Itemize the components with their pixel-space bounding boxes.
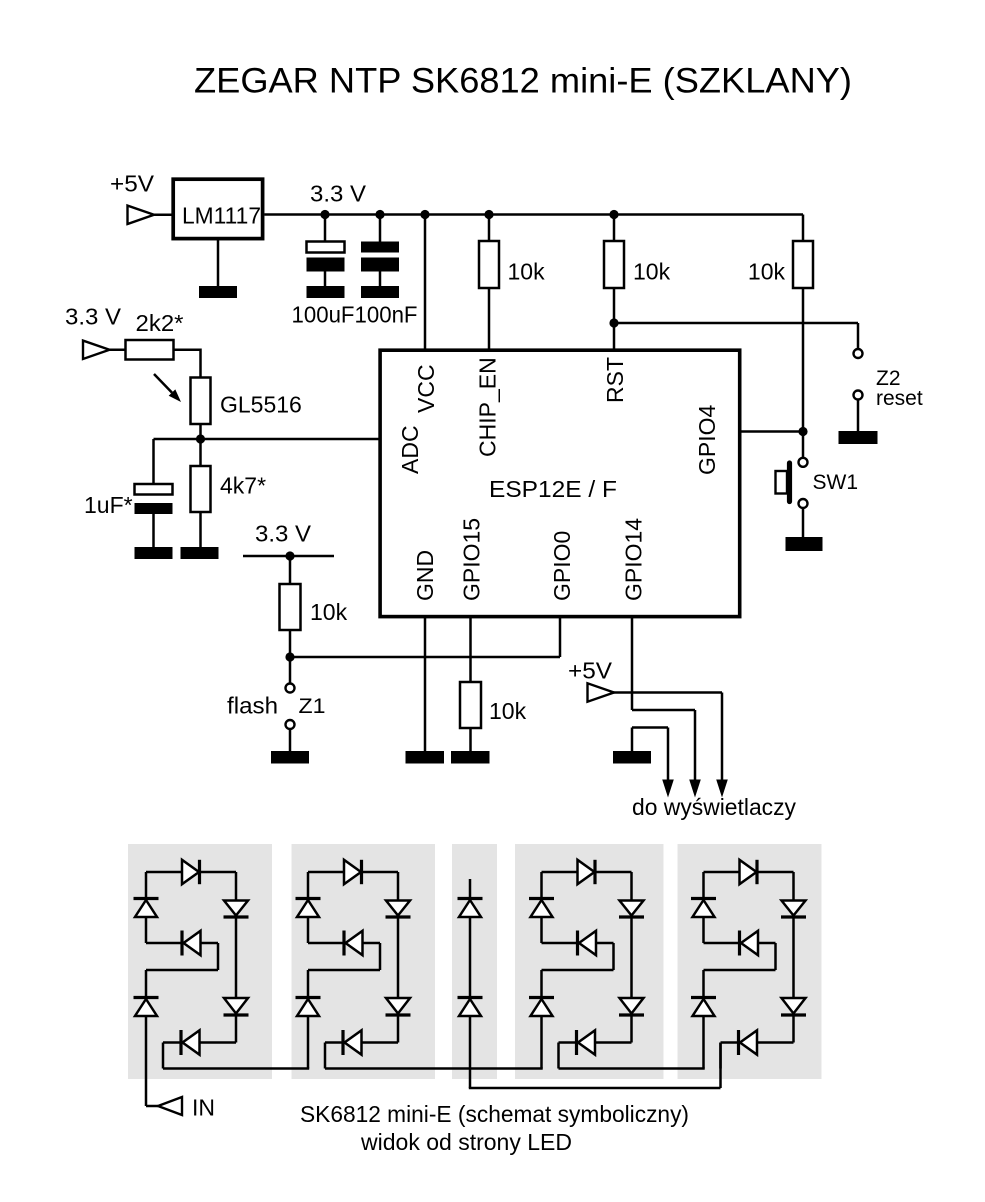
wire module 5 right bbox=[792, 872, 795, 1043]
svg-text:GPIO14: GPIO14 bbox=[621, 518, 647, 601]
ground GND pin bbox=[406, 751, 445, 764]
module D5 background bbox=[678, 844, 822, 1079]
module D2 background bbox=[292, 844, 436, 1079]
wire +5V to arrow bbox=[614, 691, 723, 694]
IC U1 ESP12E/F box bbox=[380, 350, 740, 616]
wire R7 to ground bbox=[469, 728, 472, 752]
LED segment D module 5 bbox=[737, 1030, 740, 1055]
LED segment F module 1 bbox=[134, 897, 159, 900]
wire LED ground branch bbox=[631, 728, 634, 752]
wire module 2 bottom bbox=[325, 1041, 398, 1044]
svg-text:ADC: ADC bbox=[397, 425, 423, 474]
node flash junction bbox=[285, 652, 294, 661]
regulator LM1117 box bbox=[173, 179, 262, 238]
3.3V input marker triangle left bbox=[83, 341, 110, 359]
LED segment B module 1 bbox=[224, 901, 248, 916]
capacitor C1 100uF plus plate bbox=[307, 242, 345, 253]
LED segment G module 4 bbox=[576, 931, 579, 956]
wire R2 top bbox=[613, 215, 616, 243]
LED colon top bbox=[458, 897, 483, 900]
wire IN riser bbox=[146, 1105, 158, 1108]
LED segment A module 1 bbox=[182, 860, 199, 884]
svg-text:ESP12E / F: ESP12E / F bbox=[489, 476, 617, 502]
wire 3.3V rail bbox=[265, 213, 804, 216]
connector Z2 pin 2 bbox=[854, 391, 863, 400]
svg-text:3.3 V: 3.3 V bbox=[255, 521, 312, 547]
wire ADC node down to 4k7 bbox=[199, 439, 202, 467]
svg-text:GPIO4: GPIO4 bbox=[694, 404, 720, 475]
wire module 1 top bbox=[146, 871, 236, 874]
node rail-R1 junction bbox=[484, 210, 493, 219]
LED colon bottom bbox=[458, 996, 483, 999]
resistor R2 10k (RST pullup) bbox=[604, 241, 624, 288]
wire module 4 bottom bbox=[559, 1041, 632, 1044]
wire R6 to flash node bbox=[289, 630, 292, 684]
svg-text:GL5516: GL5516 bbox=[220, 392, 302, 418]
arrow output GND bbox=[662, 780, 674, 798]
wire R2 to RST pin bbox=[613, 288, 616, 350]
LED segment G module 2 bbox=[342, 931, 345, 956]
LED segment C module 1 bbox=[224, 998, 248, 1014]
LED segment C module 5 bbox=[782, 998, 806, 1014]
ground LED connector bbox=[613, 751, 651, 764]
svg-text:10k: 10k bbox=[489, 698, 527, 724]
svg-text:3.3 V: 3.3 V bbox=[65, 304, 122, 330]
ground Z1 bbox=[271, 751, 309, 764]
svg-text:GND: GND bbox=[412, 550, 438, 601]
ground C3 bbox=[135, 547, 173, 559]
svg-text:reset: reset bbox=[876, 387, 923, 410]
ground R7 bbox=[451, 751, 490, 764]
svg-text:10k: 10k bbox=[508, 259, 546, 285]
ground C1 bbox=[307, 286, 345, 298]
svg-text:10k: 10k bbox=[748, 259, 786, 285]
svg-text:1uF*: 1uF* bbox=[84, 492, 133, 518]
wire module 1 left lower riser bbox=[145, 970, 148, 1106]
wire module 2 left lower riser bbox=[307, 970, 310, 1069]
wire Z2 to ground bbox=[857, 400, 860, 433]
svg-text:RST: RST bbox=[602, 357, 628, 403]
capacitor C3 1uF* bottom plate bbox=[135, 503, 173, 514]
wire node to SW1 bbox=[802, 432, 805, 458]
module D4 background bbox=[515, 844, 664, 1079]
capacitor C2 100nF top plate bbox=[361, 242, 399, 253]
LED segment B module 5 bbox=[782, 901, 806, 916]
svg-text:GPIO15: GPIO15 bbox=[459, 518, 485, 601]
wire marker to R4 bbox=[110, 349, 127, 352]
wire R3 to GPIO4 node bbox=[802, 288, 805, 432]
GL5516 light arrow bbox=[154, 374, 172, 393]
wire module 5 top bbox=[704, 871, 794, 874]
wire module 1 bottom bbox=[163, 1041, 236, 1044]
arrow output +5V bbox=[716, 780, 728, 798]
svg-text:100uF100nF: 100uF100nF bbox=[292, 302, 418, 328]
wire SW1 to ground bbox=[802, 508, 805, 538]
wire colon vertical bbox=[469, 879, 472, 1088]
wire chain module5 to colon bbox=[719, 1043, 722, 1089]
node rail-VCC junction bbox=[420, 210, 429, 219]
wire GPIO4 pin to node bbox=[740, 430, 803, 433]
wire GND pin to ground bbox=[424, 616, 427, 752]
svg-text:+5V: +5V bbox=[568, 658, 613, 684]
wire module 5 bottom bbox=[721, 1041, 794, 1044]
resistor R5 4k7* bbox=[191, 466, 211, 512]
node rail-C1 junction bbox=[320, 210, 329, 219]
svg-text:CHIP_EN: CHIP_EN bbox=[475, 357, 501, 457]
LED segment F module 2 bbox=[296, 897, 321, 900]
node ADC junction bbox=[196, 434, 205, 443]
connector Z1 pin 1 bbox=[286, 684, 295, 693]
svg-text:3.3 V: 3.3 V bbox=[310, 181, 367, 207]
capacitor C2 100nF bottom plate bbox=[361, 258, 399, 272]
wire C3 to ground bbox=[152, 514, 155, 548]
node rail-C2 junction bbox=[375, 210, 384, 219]
wire ADC node branch bbox=[154, 438, 381, 441]
wire LM1117 ground stem bbox=[217, 240, 220, 287]
svg-text:flash: flash bbox=[227, 693, 278, 719]
LED segment G module 1 bbox=[180, 931, 183, 956]
node 3.3V-R6 junction bbox=[285, 551, 294, 560]
wire module 4 top bbox=[542, 871, 632, 874]
wire flash node to GPIO0 bbox=[290, 656, 560, 659]
wire chain module4 to module5 bbox=[559, 1067, 705, 1070]
node GPIO4-SW1 junction bbox=[798, 427, 807, 436]
capacitor C1 100uF minus plate bbox=[307, 258, 345, 272]
wire R4 to corner bbox=[174, 349, 201, 352]
LED segment E module 5 bbox=[691, 996, 716, 999]
svg-text:+5V: +5V bbox=[110, 171, 155, 197]
svg-text:10k: 10k bbox=[633, 259, 671, 285]
capacitor C3 1uF* top plate bbox=[135, 484, 173, 495]
wire C1 bottom bbox=[324, 271, 327, 287]
svg-text:Z1: Z1 bbox=[299, 695, 326, 718]
svg-text:SW1: SW1 bbox=[813, 471, 859, 494]
wire module 5 left lower riser bbox=[702, 970, 705, 1069]
resistor R4 2k2* bbox=[126, 340, 174, 360]
LED segment D module 1 bbox=[179, 1030, 182, 1055]
LED segment A module 5 bbox=[740, 860, 757, 884]
connector Z2 pin 1 bbox=[854, 349, 863, 358]
node RST junction bbox=[609, 318, 618, 327]
wire R1 top bbox=[488, 215, 491, 243]
+5V input marker triangle bbox=[128, 206, 155, 224]
svg-text:GPIO0: GPIO0 bbox=[549, 531, 575, 601]
LED segment E module 1 bbox=[134, 996, 159, 999]
ground C2 bbox=[361, 286, 399, 298]
wire Z1 to ground bbox=[289, 729, 292, 752]
LED segment B module 2 bbox=[386, 901, 410, 916]
svg-text:IN: IN bbox=[192, 1095, 215, 1121]
wire R6 top bbox=[289, 556, 292, 585]
wire chain module2 to module4 bbox=[325, 1067, 543, 1070]
LED segment B module 4 bbox=[620, 901, 644, 916]
IN marker triangle bbox=[158, 1097, 182, 1115]
wire R5 to ground bbox=[199, 512, 202, 548]
node rail-R2 junction bbox=[609, 210, 618, 219]
wire C2 bottom bbox=[379, 271, 382, 287]
resistor R3 10k (GPIO4 pullup) bbox=[793, 241, 813, 288]
arrow output DATA bbox=[689, 780, 701, 798]
LED segment G module 5 bbox=[738, 931, 741, 956]
wire module 5 left upper bbox=[702, 872, 705, 943]
switch SW1 pin 1 bbox=[799, 458, 808, 467]
LED segment F module 4 bbox=[529, 897, 554, 900]
LED segment C module 4 bbox=[620, 998, 644, 1014]
wire GPIO15 to R7 bbox=[469, 616, 472, 683]
photoresistor GL5516 body bbox=[191, 378, 211, 425]
svg-text:widok od strony LED: widok od strony LED bbox=[360, 1129, 572, 1155]
wire module 2 right bbox=[397, 872, 400, 1043]
connector Z1 pin 2 bbox=[286, 720, 295, 729]
svg-text:LM1117: LM1117 bbox=[182, 203, 261, 229]
LED segment E module 2 bbox=[296, 996, 321, 999]
svg-text:VCC: VCC bbox=[413, 364, 439, 413]
svg-text:4k7*: 4k7* bbox=[220, 473, 266, 499]
LED segment F module 5 bbox=[691, 897, 716, 900]
svg-text:10k: 10k bbox=[310, 599, 348, 625]
wire VCC pin bbox=[424, 215, 427, 351]
ground Z2 bbox=[839, 431, 878, 444]
resistor R7 10k (GPIO15 pulldown) bbox=[460, 682, 481, 728]
wire module 4 left upper bbox=[540, 872, 543, 943]
svg-text:do wyświetlaczy: do wyświetlaczy bbox=[632, 794, 796, 820]
LED segment A module 2 bbox=[344, 860, 361, 884]
module D3 colon background bbox=[452, 844, 497, 1079]
wire module 1 left upper bbox=[145, 872, 148, 943]
svg-text:ZEGAR NTP SK6812 mini-E (SZKLA: ZEGAR NTP SK6812 mini-E (SZKLANY) bbox=[194, 61, 852, 101]
wire 3.3V stub bbox=[243, 555, 334, 558]
wire R3 top bbox=[802, 215, 805, 243]
LED segment D module 2 bbox=[341, 1030, 344, 1055]
wire GPIO0 pin stub bbox=[559, 616, 562, 657]
svg-text:SK6812 mini-E (schemat symboli: SK6812 mini-E (schemat symboliczny) bbox=[300, 1101, 689, 1127]
wire module 1 right bbox=[235, 872, 238, 1043]
wire +5V to LM1117 bbox=[154, 214, 173, 217]
ground R5 bbox=[181, 547, 219, 559]
wire R1 to CHIP_EN pin bbox=[488, 288, 491, 350]
wire C2 top bbox=[379, 215, 382, 243]
LED segment C module 2 bbox=[386, 998, 410, 1014]
wire module 4 left lower riser bbox=[540, 970, 543, 1069]
+5V output marker triangle bbox=[588, 683, 615, 701]
wire module 1 mid bbox=[146, 942, 218, 945]
wire GPIO14 data bbox=[631, 616, 634, 710]
wire module 5 mid bbox=[704, 942, 776, 945]
wire module 2 mid bbox=[308, 942, 380, 945]
svg-text:2k2*: 2k2* bbox=[136, 310, 184, 336]
switch SW1 button bbox=[776, 471, 788, 494]
module D1 background bbox=[128, 844, 272, 1079]
wire module 4 right bbox=[630, 872, 633, 1043]
ground LM1117 bbox=[199, 286, 237, 298]
resistor R6 10k (GPIO15... flash pullup) bbox=[280, 584, 301, 630]
wire module 2 left upper bbox=[307, 872, 310, 943]
wire C3 top bbox=[152, 439, 155, 485]
LED segment A module 4 bbox=[578, 860, 595, 884]
resistor R1 10k (CHIP_EN pullup) bbox=[479, 241, 499, 288]
wire chain module1 to module2 bbox=[163, 1067, 309, 1070]
LED segment D module 4 bbox=[575, 1030, 578, 1055]
wire GL5516 to ADC node bbox=[199, 424, 202, 440]
wire module 2 top bbox=[308, 871, 398, 874]
wire module 4 mid bbox=[542, 942, 614, 945]
wire C1 top bbox=[324, 215, 327, 243]
ground SW1 bbox=[786, 537, 823, 551]
wire RST to Z2 bbox=[614, 322, 858, 325]
LED segment E module 4 bbox=[529, 996, 554, 999]
switch SW1 pin 2 bbox=[799, 499, 808, 508]
switch SW1 actuator bar bbox=[787, 463, 792, 502]
